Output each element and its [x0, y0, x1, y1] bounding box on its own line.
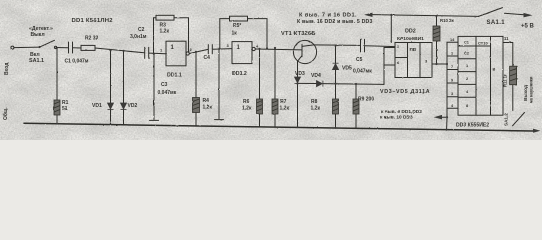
svg-text:С3: С3 — [161, 82, 168, 88]
svg-text:R11 1к: R11 1к — [503, 73, 508, 87]
svg-text:С2: С2 — [138, 27, 145, 33]
svg-text:ПВ: ПВ — [410, 47, 417, 52]
svg-text:9: 9 — [451, 79, 453, 83]
svg-text:к выв. 9 DD1,DD2: к выв. 9 DD1,DD2 — [381, 109, 422, 115]
svg-text:3: 3 — [451, 92, 453, 96]
svg-text:VD1: VD1 — [92, 103, 102, 109]
svg-text:DD3 К555ИЕ2: DD3 К555ИЕ2 — [456, 123, 489, 129]
svg-text:К выв. 16 DD2 и выв. 5 DD3: К выв. 16 DD2 и выв. 5 DD3 — [297, 19, 373, 25]
svg-text:на наушники: на наушники — [529, 76, 534, 103]
svg-text:7: 7 — [451, 65, 453, 69]
svg-text:3,0н1м: 3,0н1м — [130, 34, 147, 40]
svg-text:С1 0,047м: С1 0,047м — [65, 59, 89, 65]
svg-text:R4: R4 — [203, 98, 210, 104]
svg-text:+5 В: +5 В — [521, 24, 535, 30]
svg-text:С1: С1 — [464, 40, 470, 45]
svg-text:С5: С5 — [356, 57, 363, 63]
svg-text:0,047мк: 0,047мк — [158, 90, 177, 96]
svg-text:к выв. 10 DD3: к выв. 10 DD3 — [380, 115, 413, 121]
svg-text:К выв. 7 и 16 DD1.: К выв. 7 и 16 DD1. — [299, 13, 357, 19]
svg-text:С2: С2 — [464, 51, 470, 56]
svg-text:DD1.1: DD1.1 — [167, 73, 182, 79]
svg-text:R8: R8 — [311, 99, 318, 105]
svg-text:DD1 К561ЛН2: DD1 К561ЛН2 — [72, 18, 114, 24]
svg-text:R10 2к: R10 2к — [440, 18, 454, 23]
svg-text:11: 11 — [504, 36, 509, 41]
svg-text:С4: С4 — [204, 55, 211, 61]
svg-text:1,2к: 1,2к — [203, 105, 213, 111]
svg-text:1к: 1к — [232, 31, 238, 37]
svg-text:SA1.2: SA1.2 — [504, 113, 509, 126]
svg-text:VT1 КТ326Б: VT1 КТ326Б — [281, 31, 316, 37]
svg-text:КР1006ВИ1: КР1006ВИ1 — [397, 36, 424, 42]
svg-text:R7: R7 — [280, 99, 287, 105]
svg-text:VD4: VD4 — [311, 73, 321, 79]
svg-text:СТ10: СТ10 — [478, 41, 488, 46]
svg-text:1,2к: 1,2к — [242, 106, 252, 112]
svg-text:VD3–VD5 Д311А: VD3–VD5 Д311А — [380, 89, 430, 95]
svg-text:Общ.: Общ. — [2, 107, 9, 120]
svg-text:VD3: VD3 — [295, 71, 305, 77]
svg-text:51: 51 — [62, 106, 68, 112]
svg-text:1,2к: 1,2к — [160, 28, 170, 34]
svg-text:Вход: Вход — [4, 62, 10, 75]
svg-text:VD2: VD2 — [128, 103, 138, 109]
svg-text:R6: R6 — [243, 99, 250, 105]
svg-text:1,2к: 1,2к — [280, 106, 290, 112]
svg-text:1,2к: 1,2к — [311, 106, 321, 112]
svg-text:R2 32: R2 32 — [85, 36, 99, 42]
svg-text:DD2: DD2 — [405, 29, 416, 35]
svg-text:VD5: VD5 — [342, 66, 352, 72]
svg-text:0,047мк: 0,047мк — [353, 69, 372, 75]
svg-text:R5*: R5* — [233, 23, 241, 29]
svg-text:SA1.1: SA1.1 — [487, 20, 506, 26]
svg-text:DD1.2: DD1.2 — [232, 71, 247, 77]
svg-text:R9 200: R9 200 — [358, 97, 374, 103]
svg-text:1: 1 — [451, 52, 453, 56]
svg-text:SA1.1: SA1.1 — [29, 58, 44, 64]
svg-text:Выкл: Выкл — [31, 32, 45, 38]
